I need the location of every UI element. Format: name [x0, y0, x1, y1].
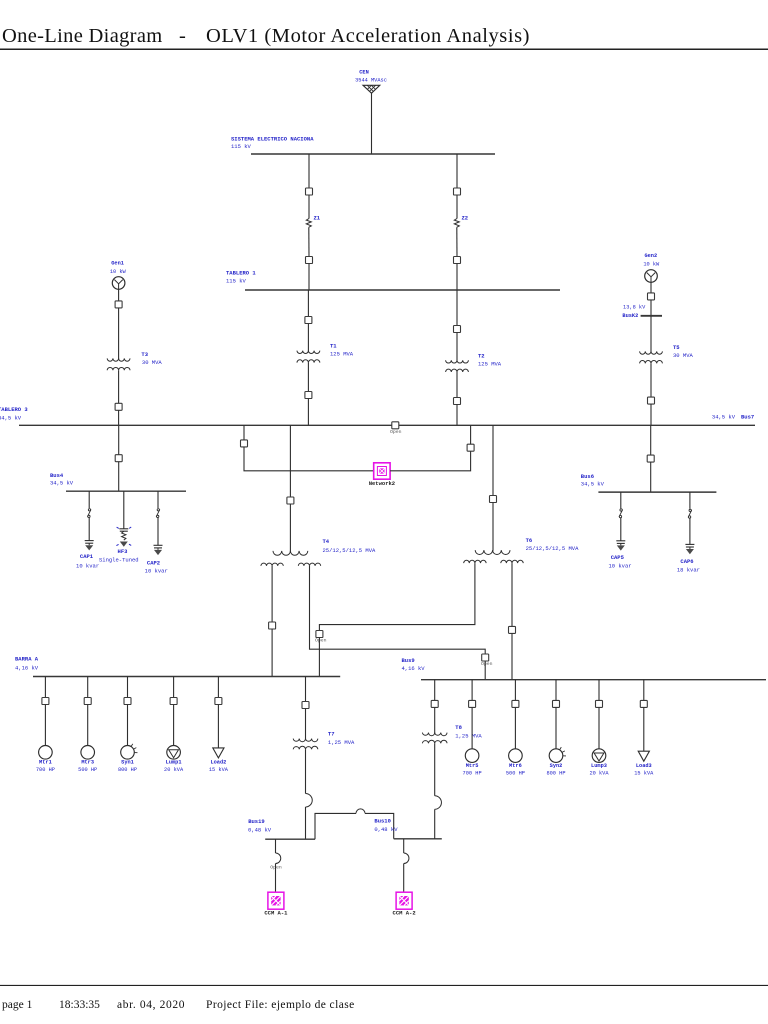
- wire Gen1 to breaker: [118, 289, 120, 301]
- svg-text:Z1: Z1: [314, 215, 321, 222]
- wire breaker T1 to bus TABLERO 3: [307, 399, 309, 426]
- svg-text:125 MVA: 125 MVA: [478, 361, 502, 368]
- wire breaker down and right to Network2: [244, 447, 374, 471]
- tie breaker Open to BARRA A: [315, 631, 327, 644]
- svg-text:Mtr3: Mtr3: [81, 759, 94, 765]
- wire breaker to Lump1: [173, 705, 175, 746]
- svg-text:TABLERO 1: TABLERO 1: [226, 270, 256, 277]
- impedance Z2 zigzag: [454, 215, 468, 228]
- breaker CB Network2 left riser: [241, 440, 248, 447]
- wire bus TABLERO 3 to breaker Bus4 feeder: [118, 425, 120, 454]
- wire breaker to impedance Z1: [308, 195, 310, 219]
- wire bus TABLERO 3 to breaker above T6: [492, 425, 494, 495]
- wire T4 right secondary to tie breaker: [310, 566, 486, 654]
- wire breaker to bus TABLERO 1 right: [456, 264, 458, 291]
- svg-text:3544 MVAsc: 3544 MVAsc: [355, 77, 387, 83]
- svg-text:18:33:35: 18:33:35: [59, 999, 100, 1011]
- svg-text:1,25 MVA: 1,25 MVA: [328, 739, 355, 746]
- svg-text:34,5 kV: 34,5 kV: [581, 481, 605, 488]
- wire bus to breaker Mtr6: [514, 680, 516, 701]
- wire breaker to transformer T2: [456, 333, 458, 361]
- wire Bus4 to switch CAP1: [88, 491, 90, 508]
- transformer T5 30 MVA: [640, 344, 694, 364]
- transformer T4 25/12,5/12,5 MVA three-winding: [261, 538, 376, 566]
- wire bus to breaker Load3: [643, 680, 645, 701]
- generator Gen1 10 kW: [110, 261, 127, 290]
- breaker CB Network2 right riser: [467, 444, 474, 451]
- svg-text:25/12,5/12,5 MVA: 25/12,5/12,5 MVA: [323, 547, 377, 554]
- svg-text:30 MVA: 30 MVA: [673, 352, 694, 359]
- wire bus TABLERO 3 to breaker above T4: [289, 425, 291, 497]
- breaker CB on Bus6 feeder: [647, 455, 654, 462]
- fuse on T8 secondary: [435, 796, 442, 810]
- wire T6 right secondary to breaker: [511, 563, 513, 626]
- svg-text:One-Line Diagram: One-Line Diagram: [2, 25, 163, 47]
- bus Bus19 0,48 kV: [248, 818, 315, 839]
- wire fuse to MCC CCM A-1: [275, 864, 277, 893]
- wire bus to breaker Mtr3: [87, 677, 89, 698]
- svg-text:4,16 kV: 4,16 kV: [402, 665, 426, 672]
- wire T4 left secondary to breaker: [271, 566, 273, 622]
- wire switch to capacitor CAP5: [620, 518, 622, 541]
- wire bus BARRA A to breaker above T7: [305, 677, 307, 702]
- svg-text:115 kV: 115 kV: [226, 277, 247, 284]
- breaker CB Load3: [640, 700, 647, 707]
- svg-text:Syn2: Syn2: [550, 763, 563, 769]
- breaker CB on Bus4 feeder: [115, 455, 122, 462]
- wire breaker to Lump3: [598, 707, 600, 748]
- svg-text:700 HP: 700 HP: [36, 767, 55, 773]
- breaker CB on Z2 feeder lower: [454, 257, 461, 264]
- svg-text:34,5 kV: 34,5 kV: [0, 414, 22, 421]
- wire bus to breaker Lump1: [173, 677, 175, 698]
- fuse on CCM A-2 feeder: [404, 853, 409, 864]
- breaker CB below T5: [648, 397, 655, 404]
- svg-text:Bus4: Bus4: [50, 472, 64, 479]
- svg-text:15 kVA: 15 kVA: [209, 767, 229, 773]
- static load Load3 15 kVA: [634, 751, 654, 776]
- svg-text:10 kW: 10 kW: [643, 262, 660, 268]
- breaker CB on Z1 feeder lower: [306, 257, 313, 264]
- wire switch to capacitor CAP1: [88, 518, 90, 541]
- svg-text:T4: T4: [323, 538, 330, 545]
- title underline rule: [0, 48, 768, 50]
- bus BARRA A 4,16 kV: [15, 655, 340, 676]
- generator Gen2 10 kW: [643, 253, 660, 282]
- svg-text:HF3: HF3: [118, 548, 129, 555]
- svg-text:T8: T8: [455, 724, 462, 731]
- wire tie breaker to bus Bus9: [484, 661, 486, 680]
- svg-text:Lump3: Lump3: [591, 763, 607, 769]
- breaker CB above T1: [305, 317, 312, 324]
- bus TABLERO 3 34,5 kV Bus7: [0, 406, 755, 425]
- wire bus to breaker Syn1: [127, 677, 129, 698]
- wire bus TABLERO 3 to breaker Network2 left: [243, 425, 245, 440]
- svg-text:T7: T7: [328, 731, 335, 738]
- svg-text:Open: Open: [390, 429, 402, 435]
- wire bus to breaker Syn2: [555, 680, 557, 701]
- breaker CB below Gen1: [115, 301, 122, 308]
- svg-text:Lump1: Lump1: [166, 759, 182, 765]
- wire Bus19 riser of tie: [315, 813, 356, 839]
- svg-text:Gen1: Gen1: [111, 261, 124, 267]
- lumped load Lump1 20 kVA: [164, 746, 184, 773]
- wire breaker to Syn2: [555, 707, 557, 748]
- svg-text:34,5 kV: 34,5 kV: [50, 480, 74, 487]
- svg-text:T6: T6: [526, 537, 533, 544]
- breaker CB Mtr1: [42, 698, 49, 705]
- svg-text:Bus7: Bus7: [741, 414, 754, 421]
- static load Load2 15 kVA: [209, 748, 229, 773]
- svg-text:4,16 kV: 4,16 kV: [15, 665, 39, 672]
- wire breaker to Load2: [217, 705, 219, 748]
- breaker CB Mtr6: [512, 700, 519, 707]
- wire bus TABLERO 1 to breaker above T2: [456, 290, 458, 326]
- breaker CB Lump1: [170, 698, 177, 705]
- svg-text:T2: T2: [478, 352, 485, 359]
- svg-text:BusK2: BusK2: [622, 313, 638, 319]
- wire breaker to transformer T6 primary: [492, 503, 494, 551]
- wire breaker to bus Bus9: [511, 633, 513, 679]
- wire bus to breaker Mtr5: [471, 680, 473, 701]
- wire breaker to Load3: [643, 707, 645, 751]
- svg-text:18 kvar: 18 kvar: [677, 566, 700, 573]
- wire breaker to Mtr5: [471, 707, 473, 748]
- wire bus SISTEMA to breaker Z2 feeder: [456, 154, 458, 188]
- svg-text:page 1: page 1: [2, 999, 33, 1011]
- wire breaker to bus TABLERO 1 left: [308, 264, 310, 291]
- tie breaker Open on bus TABLERO 3: [390, 422, 402, 435]
- wire bus to breaker Load2: [217, 677, 219, 698]
- wire Bus19 to fuse CCM A-1: [275, 839, 277, 853]
- svg-text:SISTEMA ELECTRICO NACIONA: SISTEMA ELECTRICO NACIONA: [231, 136, 314, 143]
- breaker CB above T6: [490, 496, 497, 503]
- breaker CB above T8: [431, 700, 438, 707]
- capacitor CAP2 10 kvar: [145, 545, 168, 574]
- wire breaker T5 to bus TABLERO 3: [650, 404, 652, 425]
- wire breaker to transformer T1: [307, 324, 309, 352]
- wire breaker to Mtr6: [514, 707, 516, 748]
- svg-text:Open: Open: [315, 638, 327, 644]
- wire Gen2 to breaker: [650, 282, 652, 293]
- switch on CAP5 branch: [619, 509, 623, 518]
- wire breaker to impedance Z2: [456, 195, 458, 219]
- svg-text:800 HP: 800 HP: [546, 770, 565, 776]
- breaker CB on Z1 feeder upper: [306, 188, 313, 195]
- svg-text:Open: Open: [481, 661, 493, 667]
- svg-text:T1: T1: [330, 342, 337, 349]
- svg-text:OLV1 (Motor Acceleration Analy: OLV1 (Motor Acceleration Analysis): [206, 25, 530, 47]
- svg-text:10 kW: 10 kW: [110, 269, 127, 275]
- wire breaker to bus Bus4: [118, 462, 120, 492]
- wire bus SISTEMA to breaker Z1 feeder: [308, 154, 310, 188]
- induction motor Mtr5 700 HP: [463, 749, 482, 777]
- wire T6 left secondary to tie breaker: [319, 563, 475, 630]
- breaker CB on Z2 feeder upper: [454, 188, 461, 195]
- svg-text:Project File: ejemplo de clase: Project File: ejemplo de clase: [206, 999, 355, 1011]
- wire transformer T2 to breaker: [456, 372, 458, 398]
- svg-text:-: -: [179, 25, 186, 47]
- wire breaker to transformer T8: [434, 707, 436, 733]
- svg-text:0,48 kV: 0,48 kV: [248, 827, 272, 834]
- transformer T8 1,25 MVA: [422, 724, 482, 743]
- wire fuse to bus Bus10: [434, 809, 436, 839]
- svg-text:CEN: CEN: [359, 70, 369, 76]
- capacitor CAP1 10 kvar: [76, 541, 99, 570]
- svg-text:T5: T5: [673, 344, 680, 351]
- fuse on T7 secondary: [306, 794, 313, 808]
- wire bus to breaker Mtr1: [44, 677, 46, 698]
- tie breaker Open to Bus9: [481, 654, 493, 667]
- induction motor Mtr6 500 HP: [506, 749, 525, 777]
- svg-text:CAP6: CAP6: [680, 558, 693, 565]
- wire bus to breaker Lump3: [598, 680, 600, 701]
- svg-text:Bus19: Bus19: [248, 818, 265, 825]
- transformer T2 125 MVA: [446, 352, 502, 372]
- svg-text:Network2: Network2: [369, 480, 395, 487]
- breaker CB Syn1: [124, 698, 131, 705]
- svg-text:BARRA A: BARRA A: [15, 655, 39, 662]
- wire bus TABLERO 1 to breaker above T1: [307, 290, 309, 317]
- wire impedance Z2 to breaker: [456, 227, 458, 256]
- svg-text:Bus6: Bus6: [581, 473, 594, 480]
- wire impedance Z1 to breaker: [308, 227, 310, 256]
- wire transformer T8 to fuse: [434, 743, 436, 796]
- wire breaker to bus Bus6: [650, 462, 652, 492]
- wire switch to capacitor CAP2: [157, 518, 159, 546]
- wire tie breaker to bus BARRA A: [318, 638, 320, 677]
- svg-text:700 HP: 700 HP: [463, 770, 482, 776]
- wire transformer T1 to breaker: [307, 363, 309, 392]
- wire breaker to transformer T3: [118, 308, 120, 359]
- wire Bus10 to fuse CCM A-2: [403, 839, 405, 853]
- wire breaker to bus node BusK2: [650, 300, 652, 316]
- svg-text:CAP2: CAP2: [147, 559, 160, 566]
- lumped load Lump3 20 kVA: [589, 749, 609, 777]
- svg-text:34,5 kV: 34,5 kV: [712, 414, 736, 421]
- utility source CEN labels: [355, 70, 387, 84]
- wire breaker to Mtr3: [87, 705, 89, 746]
- wire switch to capacitor CAP6: [689, 518, 691, 544]
- svg-text:Gen2: Gen2: [644, 253, 657, 259]
- svg-text:10 kvar: 10 kvar: [145, 567, 168, 574]
- wire utility to bus SISTEMA: [371, 93, 373, 154]
- breaker CB Mtr3: [84, 698, 91, 705]
- svg-text:Single-Tuned: Single-Tuned: [99, 557, 139, 564]
- wire breaker to Mtr1: [44, 705, 46, 746]
- bus node BusK2 13,8 kV: [622, 304, 662, 319]
- wire Bus4 to filter HF3: [123, 491, 125, 529]
- wire Bus4 to switch CAP2: [157, 491, 159, 508]
- transformer T1 125 MVA: [297, 342, 354, 362]
- bus Bus4 34,5 kV: [50, 472, 186, 491]
- svg-text:10 kvar: 10 kvar: [76, 562, 99, 569]
- svg-text:125 MVA: 125 MVA: [330, 350, 354, 357]
- wire fuse to MCC CCM A-2: [403, 864, 405, 893]
- breaker CB on T4 left secondary: [269, 622, 276, 629]
- breaker CB on T6 right secondary: [509, 626, 516, 633]
- switch on CAP2 branch: [156, 509, 160, 518]
- breaker CB below T2: [454, 398, 461, 405]
- breaker CB Lump3: [596, 700, 603, 707]
- synchronous motor Syn1 800 HP: [118, 744, 138, 773]
- switch on CAP1 branch: [87, 509, 91, 518]
- breaker CB Load2: [215, 698, 222, 705]
- breaker CB above T2: [454, 326, 461, 333]
- breaker CB below Gen2: [648, 293, 655, 300]
- harmonic filter HF3 Single-Tuned: [99, 527, 139, 564]
- svg-text:Bus9: Bus9: [402, 657, 415, 664]
- svg-text:abr. 04, 2020: abr. 04, 2020: [117, 999, 185, 1011]
- svg-text:25/12,5/12,5 MVA: 25/12,5/12,5 MVA: [526, 545, 580, 552]
- wire transformer T5 to breaker: [650, 363, 652, 397]
- svg-text:10 kvar: 10 kvar: [608, 563, 631, 570]
- svg-text:T3: T3: [141, 351, 148, 358]
- svg-text:CCM A-1: CCM A-1: [264, 910, 288, 917]
- wire BusK2 to transformer T5: [650, 316, 652, 352]
- wire bus Bus9 to breaker above T8: [434, 680, 436, 701]
- transformer T7 1,25 MVA: [293, 731, 355, 750]
- synchronous motor Syn2 800 HP: [546, 747, 566, 776]
- wire Bus6 to switch CAP5: [620, 492, 622, 508]
- bus Bus9 4,16 kV: [402, 657, 767, 680]
- capacitor CAP5 10 kvar: [608, 541, 631, 570]
- svg-text:20 kVA: 20 kVA: [589, 770, 609, 776]
- svg-text:TABLERO 3: TABLERO 3: [0, 406, 28, 413]
- wire transformer T3 to breaker: [118, 370, 120, 403]
- transformer T3 30 MVA: [107, 351, 162, 370]
- svg-text:Load3: Load3: [636, 763, 652, 769]
- fuse Open on CCM A-1 feeder: [270, 853, 282, 871]
- wire breaker T3 to bus TABLERO 3: [118, 410, 120, 425]
- svg-text:Mtr5: Mtr5: [466, 763, 479, 769]
- wire bus TABLERO 3 to breaker Bus6 feeder: [650, 425, 652, 455]
- MCC CCM A-1: [264, 892, 288, 916]
- bus Bus6 34,5 kV: [581, 473, 717, 492]
- svg-text:CAP1: CAP1: [80, 553, 94, 560]
- footer rule: [0, 984, 768, 986]
- svg-text:Syn1: Syn1: [121, 759, 134, 765]
- wire breaker T2 to bus TABLERO 3: [456, 405, 458, 426]
- wire breaker to bus TABLERO 3 right riser: [470, 425, 472, 444]
- svg-text:CAP5: CAP5: [611, 554, 625, 561]
- svg-text:0,48 kV: 0,48 kV: [374, 826, 398, 833]
- svg-text:CCM A-2: CCM A-2: [393, 910, 416, 917]
- svg-text:115 kV: 115 kV: [231, 143, 252, 150]
- transformer T6 25/12,5/12,5 MVA three-winding: [464, 537, 579, 563]
- breaker CB below T3: [115, 403, 122, 410]
- wire breaker to transformer T4 primary: [289, 504, 291, 552]
- wire transformer T7 to fuse: [305, 749, 307, 793]
- wire Network2 right to riser: [390, 451, 471, 471]
- induction motor Mtr3 500 HP: [78, 746, 97, 773]
- svg-text:20 kVA: 20 kVA: [164, 767, 184, 773]
- bus TABLERO 1 115 kV: [226, 270, 560, 291]
- title text: [2, 25, 530, 47]
- wire Bus6 to switch CAP6: [689, 492, 691, 509]
- svg-text:15 kVA: 15 kVA: [634, 770, 654, 776]
- svg-text:Bus10: Bus10: [374, 818, 391, 825]
- fuse on tie between Bus19 and Bus10: [356, 809, 365, 813]
- svg-text:Open: Open: [270, 865, 282, 871]
- wire tie fuse to Bus10: [365, 813, 394, 838]
- svg-text:800 HP: 800 HP: [118, 767, 137, 773]
- wire breaker to transformer T7: [305, 709, 307, 740]
- wire fuse to bus Bus19: [305, 807, 307, 839]
- capacitor CAP6 10 kvar: [677, 544, 700, 573]
- breaker CB Mtr5: [469, 700, 476, 707]
- breaker CB above T4: [287, 497, 294, 504]
- breaker CB above T7: [302, 702, 309, 709]
- svg-text:30 MVA: 30 MVA: [142, 359, 163, 366]
- svg-text:Mtr1: Mtr1: [39, 759, 52, 765]
- wire breaker to Syn1: [127, 705, 129, 746]
- footer text: [2, 999, 355, 1011]
- utility source CEN symbol: [363, 85, 380, 93]
- svg-text:1,25 MVA: 1,25 MVA: [455, 732, 482, 739]
- wire breaker to bus BARRA A: [271, 629, 273, 677]
- bus SISTEMA ELECTRICO NACIONA 115 kV: [231, 136, 495, 155]
- svg-text:500 HP: 500 HP: [78, 767, 97, 773]
- breaker CB Syn2: [553, 700, 560, 707]
- switch on CAP6 branch: [688, 509, 692, 518]
- svg-text:Mtr6: Mtr6: [509, 763, 522, 769]
- composite network Network2: [369, 463, 395, 487]
- MCC CCM A-2: [393, 892, 416, 916]
- bus Bus10 0,48 kV: [374, 818, 441, 839]
- svg-text:500 HP: 500 HP: [506, 770, 525, 776]
- breaker CB below T1: [305, 392, 312, 399]
- induction motor Mtr1 700 HP: [36, 746, 55, 773]
- svg-text:13,8 kV: 13,8 kV: [623, 304, 646, 310]
- svg-text:Z2: Z2: [462, 215, 469, 222]
- svg-text:Load2: Load2: [210, 759, 226, 765]
- impedance Z1 zigzag: [306, 215, 321, 228]
